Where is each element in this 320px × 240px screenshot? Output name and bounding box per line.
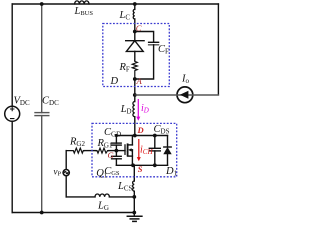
capacitor CDC — [35, 4, 49, 213]
svg-text:LCS: LCS — [117, 181, 133, 193]
svg-text:D: D — [110, 76, 119, 87]
svg-text:RF: RF — [119, 62, 130, 74]
node A dot — [133, 77, 137, 81]
svg-text:LD: LD — [120, 104, 132, 116]
capacitor CGD — [115, 136, 117, 144]
svg-text:iCH: iCH — [140, 145, 153, 157]
wire right vertical — [217, 4, 219, 95]
inductor LG — [95, 194, 109, 197]
voltage source VDC — [5, 106, 20, 121]
current arrow iCH — [137, 139, 141, 161]
MOSFET Q1 — [116, 150, 125, 152]
inductor LC — [134, 4, 136, 9]
node D dot — [133, 134, 137, 138]
svg-text:vP: vP — [54, 167, 62, 178]
capacitor CF branch — [135, 32, 154, 43]
wire to current source — [135, 94, 219, 96]
resistor RG2 — [66, 148, 84, 153]
svg-text:RG2: RG2 — [69, 137, 85, 149]
capacitor CDS — [154, 136, 156, 149]
node junction bottom CDC — [40, 211, 44, 215]
gate node dot — [115, 149, 119, 153]
wire diode to RF — [134, 51, 136, 60]
svg-text:Io: Io — [181, 74, 190, 86]
wire bottom bus — [12, 212, 134, 214]
diode clamp — [126, 41, 144, 52]
gate return wire — [66, 196, 95, 198]
wire left vertical lower — [11, 121, 13, 212]
inductor LD — [134, 95, 136, 102]
svg-text:D: D — [137, 125, 144, 135]
inductor LBUS — [75, 1, 89, 4]
svg-text:G: G — [108, 150, 114, 160]
source vP — [65, 151, 67, 170]
current arrow iD — [136, 99, 140, 121]
wire A to node D — [134, 79, 136, 95]
svg-text:LBUS: LBUS — [74, 6, 94, 17]
svg-text:A: A — [136, 76, 143, 86]
ground symbol — [133, 213, 135, 217]
svg-text:S: S — [138, 164, 143, 174]
svg-text:CDC: CDC — [42, 96, 59, 108]
node CDS top dot — [153, 134, 157, 138]
MOSFET box top rail — [116, 135, 167, 137]
svg-text:LC: LC — [119, 10, 131, 22]
node ground junction — [132, 211, 136, 215]
wire top bus — [12, 3, 218, 5]
dashed box MOSFET model — [92, 123, 177, 176]
inductor LCS — [133, 181, 135, 191]
wire S to LCS — [133, 165, 135, 181]
resistor RF — [132, 60, 137, 79]
node CGD top dot — [115, 134, 118, 137]
wire left vertical upper — [11, 4, 13, 106]
capacitor CGS — [115, 151, 117, 157]
resistor RG1 — [96, 148, 109, 153]
node LG junction — [132, 195, 136, 199]
node CDS bottom dot — [153, 163, 157, 167]
dashed box clamp circuit — [103, 24, 170, 87]
svg-text:RG1: RG1 — [97, 138, 113, 150]
node junction Io branch — [133, 93, 137, 97]
svg-text:LG: LG — [97, 201, 109, 213]
node junction top LC — [133, 2, 137, 6]
MOSFET box bottom rail — [116, 164, 167, 166]
svg-text:CF: CF — [158, 44, 169, 56]
svg-text:VDC: VDC — [14, 96, 30, 108]
node C dot — [133, 30, 137, 34]
node S dot — [131, 163, 135, 167]
node junction top CDC — [40, 2, 44, 6]
body diode D1 — [167, 136, 169, 148]
current source Io — [177, 87, 193, 103]
svg-text:C: C — [136, 23, 142, 33]
svg-text:CGS: CGS — [104, 166, 120, 177]
svg-text:CDS: CDS — [154, 124, 170, 136]
svg-text:iD: iD — [141, 103, 149, 115]
svg-text:D1: D1 — [165, 166, 178, 178]
svg-text:CGD: CGD — [104, 127, 121, 139]
